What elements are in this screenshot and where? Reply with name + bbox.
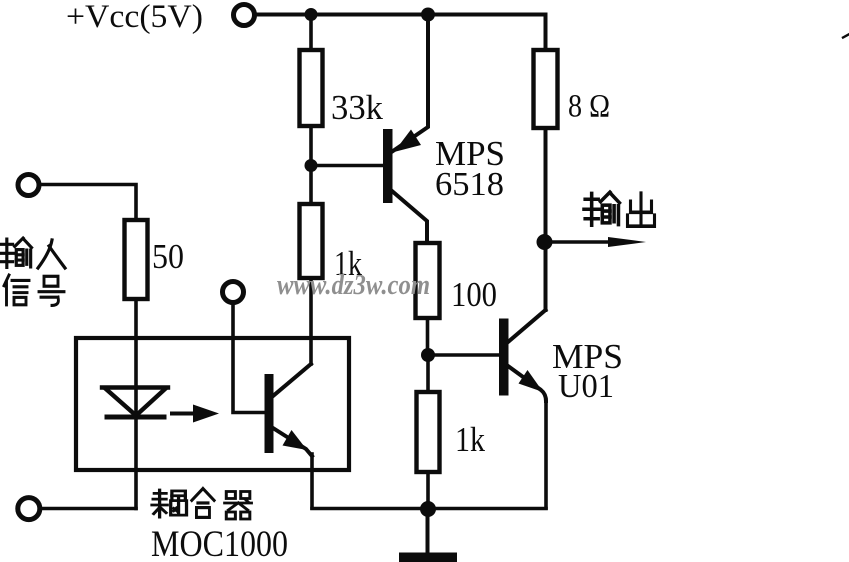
wire 50 to LED	[134, 299, 138, 509]
wire ground stub	[426, 509, 430, 553]
transistor Q2 MPS U01	[499, 310, 546, 401]
wire Q1 emitter from rail	[393, 15, 428, 152]
svg-text:33k: 33k	[331, 88, 383, 127]
wire 8ohm top lead	[544, 15, 548, 53]
svg-text:www.dz3w.com: www.dz3w.com	[277, 270, 430, 301]
wire Q2 collector	[544, 242, 548, 310]
resistor R6 50	[125, 220, 148, 299]
node top Q1 junction	[421, 8, 435, 22]
wire 1k bottom to opto collector	[309, 278, 313, 364]
wire 33k top lead	[309, 15, 313, 53]
svg-text:100: 100	[451, 275, 497, 314]
svg-text:50: 50	[152, 237, 184, 276]
wire 33k bottom lead	[309, 126, 313, 166]
terminal Vcc	[234, 5, 255, 26]
svg-text:6518: 6518	[435, 166, 504, 203]
node Q2 base junction	[421, 348, 435, 362]
output arrow	[546, 237, 646, 247]
wire 1k right bottom lead	[426, 472, 430, 509]
svg-text:U01: U01	[558, 368, 614, 405]
node divider junction	[305, 159, 318, 172]
svg-text:8 Ω: 8 Ω	[568, 89, 610, 125]
svg-text:+Vcc(5V): +Vcc(5V)	[66, 0, 203, 35]
wire bottom-left	[41, 507, 136, 511]
wire bottom rail	[312, 507, 546, 511]
light arrow	[172, 405, 219, 423]
speck top right	[843, 35, 849, 38]
optocoupler box MOC1000	[76, 338, 349, 470]
terminal input bottom	[18, 498, 40, 520]
wire Q2 base	[428, 353, 499, 357]
resistor R1 33k	[300, 50, 323, 126]
wire input top	[41, 185, 136, 222]
svg-text:MOC1000: MOC1000	[151, 524, 288, 562]
terminal input top	[18, 175, 39, 196]
terminal opto base	[223, 282, 244, 303]
resistor R4 1k	[417, 392, 440, 472]
wire Q2 emitter down	[544, 400, 548, 508]
ground	[399, 553, 457, 562]
wire 1k left top lead	[309, 166, 313, 205]
LED D1	[102, 388, 168, 418]
wire 1k right top lead	[426, 355, 430, 393]
node output junction	[537, 234, 553, 250]
resistor R5 8ohm	[534, 50, 558, 128]
label 输出 output	[584, 192, 655, 226]
svg-text:1k: 1k	[455, 420, 485, 459]
node top 33k junction	[305, 8, 318, 21]
transistor Q1 MPS6518	[383, 129, 427, 244]
label 耦合器 coupler	[152, 489, 251, 519]
label 输入信号 input signal	[0, 238, 65, 305]
wire 8ohm bottom lead	[544, 128, 548, 242]
phototransistor in MOC1000	[265, 364, 313, 456]
node ground junction	[420, 501, 436, 517]
wire opto base	[233, 302, 265, 413]
resistor R3 100	[416, 243, 440, 318]
wire Q1 base	[311, 164, 383, 168]
wire opto emitter down	[310, 454, 314, 508]
wire 100 bottom lead	[426, 318, 430, 355]
resistor R2 1k	[300, 204, 323, 278]
wire top rail	[257, 13, 546, 17]
